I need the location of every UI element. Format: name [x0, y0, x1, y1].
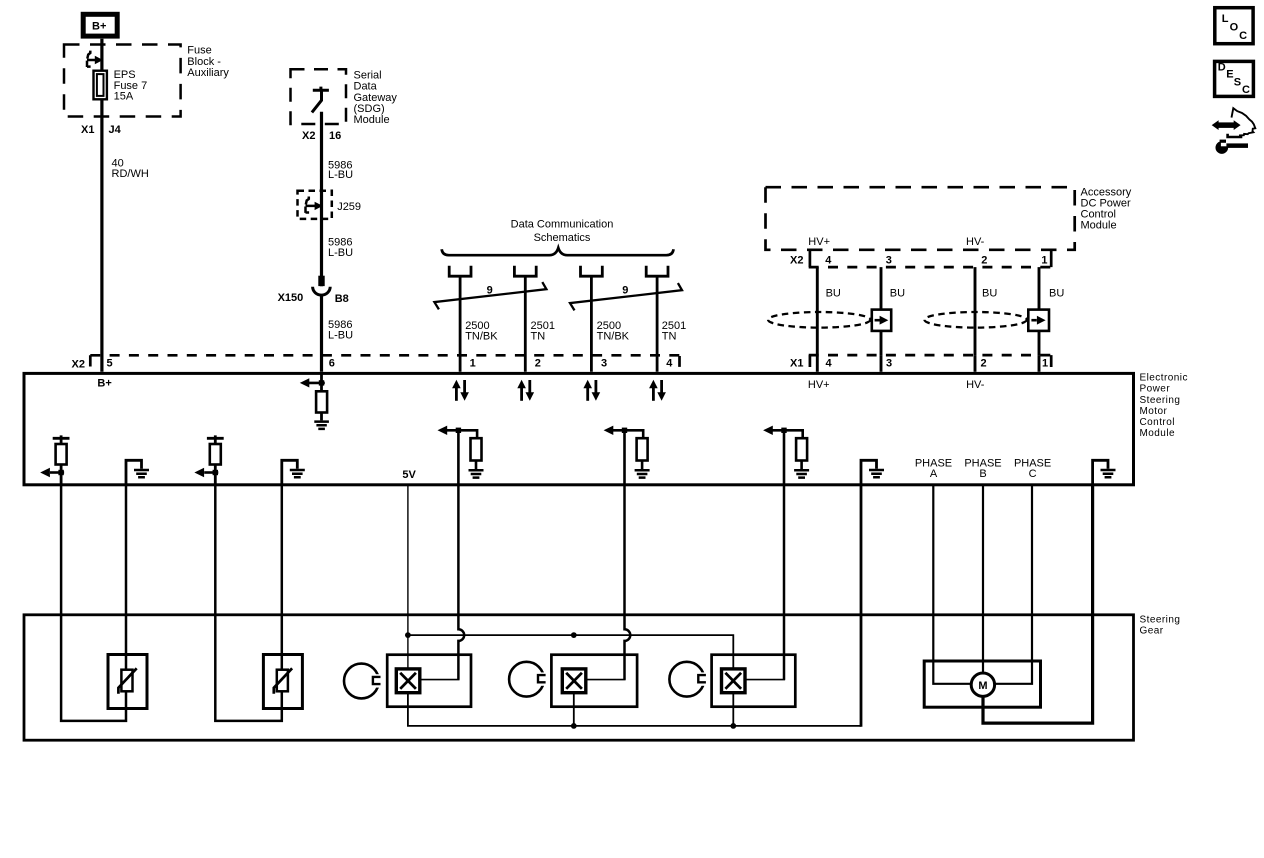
- wire sensor 1 loop: [61, 486, 126, 721]
- brace under data communication note: [442, 248, 674, 255]
- twisted pair symbol 2: [570, 283, 682, 310]
- svg-text:X150: X150: [278, 292, 304, 304]
- svg-text:C: C: [1239, 30, 1247, 42]
- svg-text:X2: X2: [790, 255, 803, 267]
- svg-text:L-BU: L-BU: [328, 247, 353, 259]
- wire HV- pin 2 BU: [974, 267, 977, 355]
- svg-text:TN: TN: [662, 330, 677, 342]
- junction dot 5V at sensor 1: [405, 632, 411, 638]
- svg-text:J259: J259: [337, 201, 361, 213]
- wire X1 pin 2 to module: [974, 355, 977, 372]
- wire sensor 1 signal with hop: [458, 486, 464, 680]
- wire 5V distribution rail: [408, 635, 733, 669]
- sensor 1 supply branch with resistor and arrow: [53, 435, 70, 484]
- svg-text:B+: B+: [92, 21, 106, 33]
- wire HV+ pin 4 BU: [816, 267, 819, 355]
- svg-text:Module: Module: [354, 114, 390, 126]
- svg-text:5V: 5V: [402, 469, 416, 481]
- accessory module connector row X2 dashed: [809, 266, 1053, 269]
- junction dot return rail sensor 2: [571, 723, 577, 729]
- motor position sensor element box: [712, 655, 796, 707]
- wire terminal 2 to pin 2: [524, 278, 527, 372]
- svg-text:Module: Module: [1081, 220, 1117, 232]
- motor position sensor branch resistor to ground: [772, 430, 803, 484]
- pin 1 bidirectional arrows: [455, 387, 458, 401]
- inline connector X150 pin B8: [318, 276, 324, 286]
- svg-text:Control: Control: [1140, 417, 1175, 428]
- icon DESC box: [1215, 61, 1254, 96]
- torque sensor 2 element box: [551, 655, 637, 707]
- svg-text:X2: X2: [72, 358, 85, 370]
- wire terminal 4 to pin 4: [656, 278, 659, 372]
- svg-text:9: 9: [487, 285, 493, 297]
- fuse block auxiliary dashed box: [64, 45, 181, 117]
- torque sensor 1 variable resistor: [108, 655, 147, 709]
- svg-text:L-BU: L-BU: [328, 169, 353, 181]
- svg-text:BU: BU: [1049, 288, 1064, 300]
- wire position sensor signal: [783, 486, 786, 680]
- svg-text:HV+: HV+: [808, 379, 830, 391]
- rotation indicator sensor 3: [669, 662, 704, 697]
- steering motor box: [924, 661, 1040, 707]
- svg-text:Motor: Motor: [1140, 406, 1168, 417]
- svg-text:Steering: Steering: [1140, 615, 1181, 626]
- splice J259 dashed box: [298, 191, 332, 219]
- terminal 3 serial data: [581, 266, 603, 276]
- svg-text:A: A: [930, 468, 938, 480]
- wire terminal 1 to pin 1: [459, 278, 462, 372]
- svg-text:HV-: HV-: [966, 236, 985, 248]
- junction dot 5V at sensor 2: [571, 632, 577, 638]
- EPS module connector row X2 dashed: [90, 354, 679, 357]
- svg-text:X1: X1: [81, 124, 94, 136]
- wire phase C to motor: [995, 486, 1032, 684]
- svg-text:3: 3: [886, 357, 892, 369]
- EPS module connector row X1 dashed: [809, 354, 1053, 357]
- node B+ battery terminal: [83, 14, 117, 36]
- svg-text:5: 5: [107, 357, 113, 369]
- svg-text:Gear: Gear: [1140, 626, 1164, 637]
- rotation indicator sensor 1: [344, 664, 379, 699]
- svg-text:D: D: [1218, 61, 1226, 73]
- svg-text:(SDG): (SDG): [354, 103, 385, 115]
- pin 2 bidirectional arrows: [520, 387, 523, 401]
- rotation indicator sensor 2: [509, 662, 544, 697]
- terminal 4 serial data: [646, 266, 668, 276]
- shield drain terminal box HV+: [872, 310, 891, 331]
- sensor 1 return ground bracket: [126, 460, 142, 484]
- svg-text:Serial: Serial: [354, 69, 382, 81]
- junction dot return rail position sensor: [730, 723, 736, 729]
- wire position sensor return: [732, 692, 734, 726]
- wire motor return to module ground: [983, 486, 1093, 723]
- wire phase B to motor: [982, 486, 984, 673]
- fuse EPS Fuse 7 15A: [94, 71, 107, 100]
- svg-text:2: 2: [981, 255, 987, 267]
- serial data gateway module dashed box: [291, 69, 347, 124]
- torque sensor 2 output branch resistor to ground: [612, 430, 643, 484]
- svg-text:Auxiliary: Auxiliary: [187, 67, 229, 79]
- switch contact inside SDG module: [312, 87, 329, 113]
- icon wrench: [1216, 141, 1229, 154]
- svg-text:9: 9: [622, 285, 628, 297]
- wire sensor common return rail: [408, 693, 861, 726]
- svg-text:O: O: [1230, 22, 1239, 34]
- torque sensor 2 variable resistor: [263, 655, 302, 709]
- wire 5V feed into steering gear: [407, 486, 409, 669]
- pin 4 bidirectional arrows: [652, 387, 655, 401]
- svg-text:4: 4: [826, 357, 833, 369]
- svg-text:4: 4: [825, 255, 832, 267]
- svg-text:L-BU: L-BU: [328, 330, 353, 342]
- svg-text:Module: Module: [1140, 428, 1176, 439]
- motor M: [971, 673, 994, 696]
- svg-text:3: 3: [601, 357, 607, 369]
- terminal 2 serial data: [514, 266, 536, 276]
- icon LOC box: [1215, 8, 1253, 44]
- svg-text:Power: Power: [1140, 384, 1171, 395]
- svg-text:Gateway: Gateway: [354, 92, 398, 104]
- svg-text:Data Communication: Data Communication: [511, 218, 614, 230]
- svg-text:M: M: [978, 680, 987, 692]
- torque sensor 1 element box: [387, 655, 471, 707]
- svg-text:J4: J4: [109, 124, 122, 136]
- shield ellipse HV+ pair: [768, 312, 870, 328]
- terminal clip in fuse block: [87, 51, 98, 67]
- svg-text:1: 1: [470, 357, 476, 369]
- svg-text:BU: BU: [826, 288, 841, 300]
- svg-text:B: B: [979, 468, 986, 480]
- svg-text:BU: BU: [890, 288, 905, 300]
- motor return ground bracket: [1093, 460, 1108, 484]
- svg-text:S: S: [1234, 77, 1241, 89]
- wire sensor 1 supply: [125, 486, 128, 670]
- terminal 1 serial data: [449, 266, 471, 276]
- sensor 2 return ground bracket: [282, 460, 298, 484]
- pin 6 internal arrow and pull resistor: [308, 382, 325, 385]
- svg-text:HV+: HV+: [808, 236, 830, 248]
- svg-text:TN/BK: TN/BK: [597, 330, 630, 342]
- svg-text:4: 4: [666, 357, 673, 369]
- wire X1 pin 1 to module: [1038, 355, 1041, 372]
- steering gear box: [24, 615, 1134, 740]
- svg-text:E: E: [1226, 69, 1233, 81]
- twisted pair symbol 1: [434, 282, 546, 309]
- svg-text:Schematics: Schematics: [534, 232, 591, 244]
- EPS motor control module box: [24, 373, 1134, 484]
- shield drain terminal box HV-: [1028, 310, 1049, 331]
- svg-text:2: 2: [535, 357, 541, 369]
- svg-text:1: 1: [1042, 357, 1048, 369]
- sensor 2 supply branch with resistor and arrow: [207, 435, 224, 484]
- svg-text:HV-: HV-: [966, 379, 985, 391]
- torque sensor 1 output branch resistor to ground: [446, 430, 477, 484]
- accessory DC power control module dashed box: [766, 187, 1075, 250]
- svg-text:2: 2: [981, 357, 987, 369]
- svg-text:X2: X2: [302, 130, 315, 142]
- svg-text:B+: B+: [97, 378, 111, 390]
- svg-text:C: C: [1242, 84, 1250, 96]
- svg-text:3: 3: [886, 255, 892, 267]
- icon jump to schematic: [1232, 108, 1256, 135]
- wire sensor 2 supply: [281, 486, 284, 670]
- sensor common return ground bracket: [861, 460, 877, 484]
- wire sensor 2 loop: [215, 486, 281, 721]
- wire terminal 3 to pin 3: [590, 278, 593, 372]
- svg-text:TN: TN: [531, 330, 546, 342]
- svg-text:Block -: Block -: [187, 56, 221, 68]
- svg-text:Electronic: Electronic: [1140, 373, 1188, 384]
- svg-text:16: 16: [329, 130, 341, 142]
- wire X1 pin 3 to module: [880, 355, 883, 372]
- wire sensor 2 signal with hop: [625, 486, 631, 680]
- shield ellipse HV- pair: [924, 312, 1026, 328]
- svg-text:TN/BK: TN/BK: [465, 330, 498, 342]
- wire HV- pin 1 BU: [1038, 267, 1041, 355]
- wire B+ feed down to EPS module pin 5: [100, 39, 103, 372]
- terminal clip in J259: [306, 197, 318, 213]
- svg-text:L: L: [1222, 13, 1229, 25]
- wire HV+ pin 3 BU: [880, 267, 883, 355]
- svg-text:BU: BU: [982, 288, 997, 300]
- svg-text:15A: 15A: [114, 90, 134, 102]
- svg-text:Data: Data: [354, 81, 378, 93]
- svg-text:B8: B8: [335, 293, 349, 305]
- wire phase A to motor: [933, 486, 971, 684]
- svg-text:RD/WH: RD/WH: [112, 168, 149, 180]
- wire sensor 2 return: [573, 692, 575, 726]
- wire X1 pin 4 to module: [816, 355, 819, 372]
- svg-text:C: C: [1029, 468, 1037, 480]
- wire SDG pin 16 down to EPS module pin 6: [320, 112, 323, 372]
- ground pin 6 resistor: [314, 422, 329, 429]
- pin 3 bidirectional arrows: [586, 387, 589, 401]
- svg-text:X1: X1: [790, 358, 803, 370]
- svg-text:Fuse: Fuse: [187, 45, 211, 57]
- svg-text:Steering: Steering: [1140, 395, 1181, 406]
- svg-text:1: 1: [1041, 255, 1047, 267]
- svg-text:6: 6: [329, 357, 335, 369]
